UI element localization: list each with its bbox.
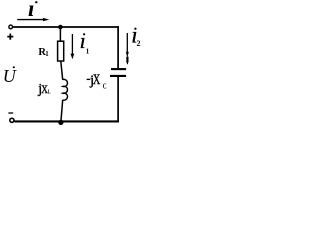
wire right branch upper (117, 26, 119, 68)
capacitor top plate (111, 68, 126, 70)
svg-text:ı: ı (80, 28, 86, 53)
svg-text:L: L (48, 88, 51, 95)
wire middle branch coil to bottom (61, 100, 63, 122)
svg-text:1: 1 (45, 51, 49, 58)
svg-text:C: C (103, 81, 107, 90)
current i1 arrow (71, 34, 73, 55)
svg-text:X: X (93, 72, 101, 88)
resistor R1 body (58, 41, 64, 61)
capacitor bottom plate (110, 75, 126, 77)
node junction bottom (58, 120, 63, 125)
svg-text:1: 1 (86, 48, 90, 56)
capacitor label -jXC (87, 78, 91, 80)
current i2 arrow (126, 33, 128, 53)
svg-text:2: 2 (137, 39, 141, 48)
wire middle branch junction to resistor (59, 27, 61, 42)
node junction top (58, 25, 63, 30)
inductor coil (63, 79, 68, 100)
wire top horizontal (13, 26, 119, 28)
wire middle branch resistor to coil (61, 61, 63, 80)
wire bottom horizontal (15, 120, 119, 122)
current i arrow (17, 19, 43, 21)
svg-text:ı: ı (28, 0, 34, 21)
terminal bottom-left (10, 118, 14, 122)
svg-text:U: U (3, 66, 17, 86)
wire right branch lower (117, 77, 119, 122)
minus sign (8, 112, 13, 114)
terminal top-left (9, 25, 13, 29)
plus sign (7, 34, 13, 40)
capacitor artifact tick (126, 57, 128, 63)
